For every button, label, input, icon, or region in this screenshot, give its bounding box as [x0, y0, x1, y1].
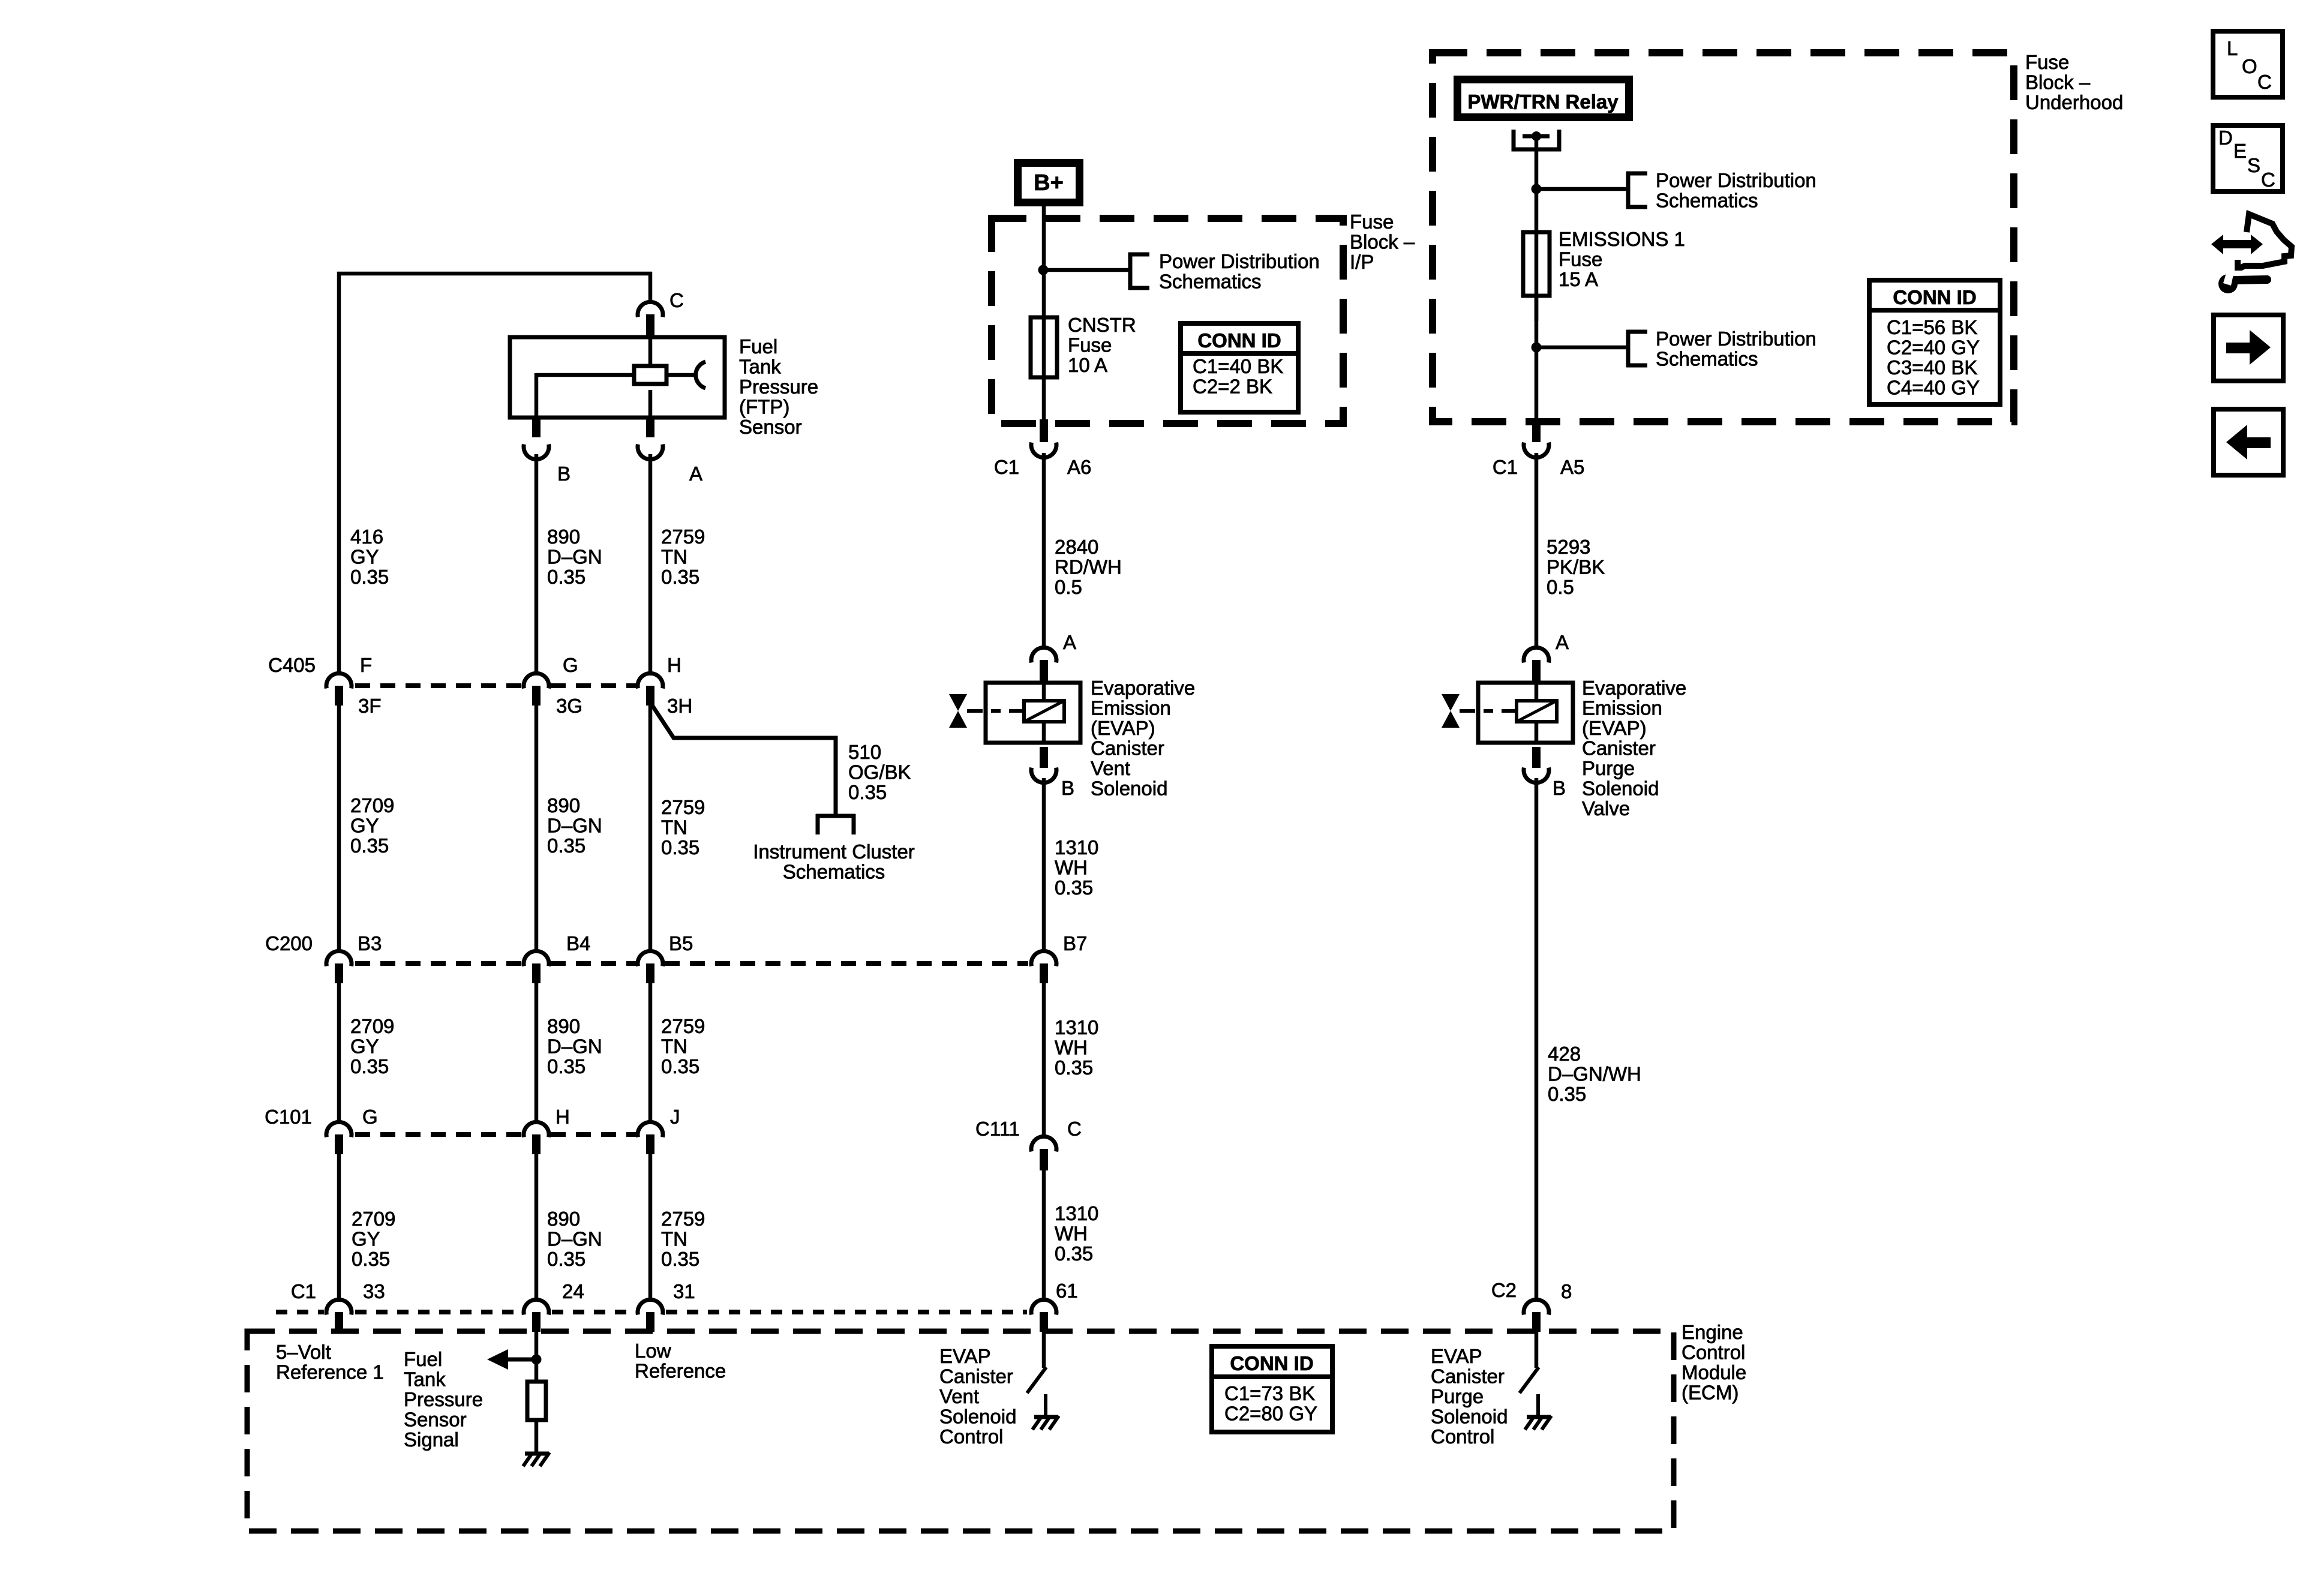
svg-text:Pressure: Pressure: [404, 1388, 483, 1410]
label C1 at A5: [1493, 456, 1518, 478]
svg-text:3F: 3F: [358, 695, 382, 717]
pin label 3G: [556, 695, 582, 717]
svg-text:E: E: [2233, 140, 2247, 162]
pin label 3H: [667, 695, 692, 717]
switch vent solenoid driver: [1027, 1367, 1046, 1393]
pin label C: [669, 289, 684, 311]
I/P CONN ID title: [1197, 329, 1281, 352]
svg-text:Canister: Canister: [939, 1365, 1013, 1388]
svg-text:Canister: Canister: [1431, 1365, 1505, 1388]
C405 male pin H: [646, 686, 654, 706]
C405 male pin G: [532, 686, 541, 706]
svg-text:Fuel: Fuel: [404, 1348, 442, 1370]
svg-text:EMISSIONS 1: EMISSIONS 1: [1559, 228, 1685, 250]
purge solenoid female arc pin B: [1524, 768, 1549, 783]
svg-text:24: 24: [562, 1280, 584, 1302]
svg-text:Fuse: Fuse: [1559, 248, 1602, 271]
pin label F: [360, 654, 372, 676]
underhood CONN ID rows: [1887, 316, 1980, 399]
svg-text:Power Distribution: Power Distribution: [1159, 250, 1320, 272]
svg-text:890: 890: [547, 1208, 580, 1230]
svg-text:2759: 2759: [661, 526, 705, 548]
pin label 33: [363, 1280, 385, 1302]
svg-text:OG/BK: OG/BK: [848, 761, 911, 784]
svg-text:0.35: 0.35: [661, 836, 699, 858]
vent solenoid female arc pin A: [1031, 647, 1056, 662]
ground chassis symbol purge driver: [1525, 1416, 1551, 1430]
svg-text:Low: Low: [635, 1340, 671, 1362]
svg-text:2709: 2709: [350, 794, 394, 816]
EVAP Canister Purge Solenoid Control label: [1431, 1345, 1508, 1448]
resistor in ECM: [527, 1382, 546, 1420]
C101 female arc pin J: [638, 1122, 663, 1137]
junction dot underhood 2: [1532, 343, 1542, 353]
purge solenoid coil wire bottom: [1535, 722, 1539, 743]
svg-text:S: S: [2247, 154, 2260, 176]
Low Reference label: [635, 1340, 726, 1382]
ECM CONN ID box: [1212, 1346, 1332, 1432]
signal arrow: [487, 1349, 536, 1370]
svg-text:2840: 2840: [1055, 536, 1098, 558]
svg-text:H: H: [556, 1106, 570, 1128]
purge solenoid valve dashes: [1460, 709, 1517, 713]
pin label A purge: [1556, 631, 1569, 653]
svg-text:B: B: [1061, 777, 1074, 799]
svg-text:33: 33: [363, 1280, 385, 1302]
svg-text:0.35: 0.35: [1548, 1083, 1586, 1105]
FTP wiper line: [666, 373, 696, 377]
svg-text:Purge: Purge: [1582, 757, 1635, 779]
svg-text:1310: 1310: [1055, 1016, 1098, 1038]
wire 1310 WH seg1: [1042, 778, 1046, 952]
male pin A6 of fuse block I/P: [1040, 419, 1048, 442]
svg-text:Canister: Canister: [1582, 737, 1656, 760]
svg-text:Solenoid: Solenoid: [1091, 778, 1167, 800]
svg-text:C1=40 BK: C1=40 BK: [1193, 355, 1283, 377]
vent solenoid coil wire bottom: [1042, 722, 1046, 743]
C101 male pin J: [646, 1134, 654, 1154]
junction dot at FTP signal: [532, 1355, 542, 1365]
svg-text:5293: 5293: [1547, 536, 1590, 558]
Power Distribution Schematics label I/P: [1159, 250, 1320, 293]
svg-text:A: A: [1556, 631, 1569, 653]
svg-text:Purge: Purge: [1431, 1385, 1484, 1407]
C200 male pin B3: [335, 963, 343, 983]
svg-text:C405: C405: [268, 654, 316, 676]
resistor R inside FTP sensor: [634, 366, 666, 384]
svg-text:Control: Control: [1682, 1341, 1745, 1364]
wire label 2709 GY 0.35 seg4: [352, 1208, 395, 1270]
svg-text:0.35: 0.35: [661, 566, 699, 588]
pin label B5: [669, 932, 693, 954]
svg-text:31: 31: [673, 1280, 695, 1302]
svg-text:Schematics: Schematics: [1656, 190, 1758, 212]
svg-text:Solenoid: Solenoid: [1582, 778, 1659, 800]
branch wire to power distribution underhood 1: [1536, 187, 1628, 191]
svg-text:0.35: 0.35: [350, 1055, 389, 1077]
Power Distribution Schematics label underhood 1: [1656, 169, 1816, 212]
C1 female arc pin 61: [1031, 1299, 1056, 1314]
svg-text:8: 8: [1561, 1280, 1572, 1302]
label C101: [265, 1106, 312, 1128]
wire resistor to ground: [535, 1420, 539, 1452]
C200 female arc pin B5: [638, 951, 663, 966]
svg-text:B: B: [1553, 777, 1566, 799]
PWR/TRN Relay box: [1458, 80, 1629, 118]
svg-text:L: L: [2227, 37, 2238, 59]
svg-text:0.35: 0.35: [848, 781, 887, 803]
branch wire to power distribution I/P: [1043, 268, 1130, 272]
svg-text:Tank: Tank: [739, 356, 781, 378]
pin label C at C111: [1067, 1118, 1082, 1140]
ground chassis symbol FTP signal: [523, 1452, 550, 1466]
FTP wiper crescent: [696, 362, 705, 388]
wire fuse to C1 A5: [1535, 296, 1539, 421]
svg-text:CONN ID: CONN ID: [1893, 286, 1976, 308]
relay output terminal bracket: [1514, 130, 1559, 149]
svg-text:C: C: [669, 289, 684, 311]
svg-text:C2=2 BK: C2=2 BK: [1193, 376, 1272, 398]
LOC icon box: [2213, 31, 2283, 97]
junction dot underhood 1: [1532, 184, 1542, 194]
svg-text:WH: WH: [1055, 857, 1088, 879]
ground chassis symbol vent driver: [1032, 1416, 1059, 1430]
svg-text:D–GN: D–GN: [547, 1228, 602, 1250]
purge solenoid coil wire top: [1535, 683, 1539, 702]
svg-text:TN: TN: [661, 816, 687, 839]
svg-text:G: G: [362, 1106, 378, 1128]
svg-text:3H: 3H: [667, 695, 692, 717]
C405 male pin F: [335, 686, 343, 706]
wire label 2759 TN 0.35 seg2: [661, 796, 705, 858]
svg-text:A5: A5: [1560, 456, 1584, 478]
svg-text:0.35: 0.35: [547, 1248, 585, 1270]
Fuse Block I/P label: [1350, 211, 1415, 273]
svg-text:Canister: Canister: [1091, 737, 1164, 760]
purge solenoid coil: [1517, 701, 1557, 722]
svg-text:D: D: [2218, 127, 2233, 149]
pin label B3: [358, 932, 382, 954]
svg-text:(EVAP): (EVAP): [1091, 717, 1155, 739]
svg-text:Module: Module: [1682, 1361, 1746, 1383]
svg-text:416: 416: [350, 526, 383, 548]
svg-text:Signal: Signal: [404, 1428, 459, 1451]
svg-text:Control: Control: [939, 1425, 1003, 1448]
svg-text:C1=73 BK: C1=73 BK: [1224, 1382, 1315, 1404]
pin label G: [362, 1106, 378, 1128]
wire label 510 OG/BK 0.35: [848, 741, 911, 803]
C405 female arc pin G: [524, 673, 549, 688]
back arrow icon box: [2214, 409, 2283, 475]
svg-text:GY: GY: [352, 1228, 380, 1250]
C200 female arc pin B4: [524, 951, 549, 966]
vent solenoid male pin B: [1040, 747, 1048, 768]
C2 male pin 8: [1532, 1312, 1541, 1332]
svg-text:O: O: [2242, 55, 2257, 77]
svg-text:890: 890: [547, 526, 580, 548]
wire 5293 PK/BK: [1535, 453, 1539, 649]
svg-text:A: A: [1063, 631, 1076, 653]
svg-text:J: J: [670, 1106, 680, 1128]
wire 890 D-GN from FTP B: [535, 454, 539, 671]
svg-text:(ECM): (ECM): [1682, 1382, 1739, 1404]
svg-text:0.35: 0.35: [547, 834, 585, 857]
svg-text:TN: TN: [661, 546, 687, 568]
pin label B4: [566, 932, 590, 954]
svg-text:Block –: Block –: [1350, 231, 1415, 253]
connector C405-area female arc at FTP pin C: [638, 302, 663, 317]
svg-text:3G: 3G: [556, 695, 582, 717]
svg-text:Pressure: Pressure: [739, 376, 818, 398]
ECM connector row dashed line: [276, 1310, 1027, 1314]
svg-text:Schematics: Schematics: [1656, 348, 1758, 370]
vent solenoid valve dashes: [967, 709, 1024, 713]
Engine Control Module (ECM) dashed box: [247, 1331, 1674, 1531]
svg-text:C101: C101: [265, 1106, 312, 1128]
wire 2709 GY seg3: [337, 982, 341, 1123]
svg-text:2709: 2709: [352, 1208, 395, 1230]
svg-text:0.35: 0.35: [1055, 1242, 1093, 1265]
svg-text:Block –: Block –: [2025, 71, 2091, 94]
vent solenoid valve bowtie: [949, 694, 967, 728]
pin label 3F: [358, 695, 382, 717]
wire label 416 GY 0.35: [350, 526, 389, 588]
EVAP canister purge solenoid box: [1478, 683, 1573, 743]
C200 male pin B4: [532, 963, 541, 983]
branch wire to power distribution underhood 2: [1536, 346, 1628, 350]
svg-text:0.35: 0.35: [350, 566, 389, 588]
pin label B: [557, 463, 571, 485]
ground lead vent driver: [1044, 1394, 1047, 1416]
svg-text:Power Distribution: Power Distribution: [1656, 169, 1816, 191]
off-page bracket to instrument cluster: [816, 814, 855, 834]
pin label A6: [1067, 456, 1091, 478]
svg-text:890: 890: [547, 1015, 580, 1037]
switch purge solenoid driver: [1520, 1367, 1539, 1393]
B+ power feed box: [1018, 163, 1080, 203]
svg-text:RD/WH: RD/WH: [1055, 556, 1122, 578]
purge solenoid valve bowtie: [1442, 694, 1460, 728]
off-page bracket power distribution I/P: [1128, 253, 1149, 290]
svg-text:D–GN: D–GN: [547, 815, 602, 837]
purge solenoid male pin B: [1532, 747, 1541, 768]
svg-text:Underhood: Underhood: [2025, 91, 2123, 113]
svg-text:Emission: Emission: [1582, 697, 1662, 719]
wire into ECM pin 8: [1535, 1331, 1539, 1368]
connector C405 dashed interconnect line: [355, 683, 636, 688]
pin label B vent: [1061, 777, 1074, 799]
wire 2759 TN seg3: [648, 982, 653, 1123]
wire label 2840 RD/WH 0.5: [1055, 536, 1122, 598]
svg-text:0.35: 0.35: [350, 834, 389, 857]
svg-text:Fuse: Fuse: [1068, 334, 1112, 356]
svg-text:C: C: [2261, 169, 2275, 191]
pin label 24: [562, 1280, 584, 1302]
svg-text:C1=56 BK: C1=56 BK: [1887, 316, 1977, 338]
svg-text:Fuse: Fuse: [1350, 211, 1394, 233]
wire B+ to fuse: [1042, 203, 1046, 320]
C405 female arc pin H: [638, 673, 663, 688]
Instrument Cluster Schematics label: [753, 840, 915, 883]
svg-text:G: G: [563, 654, 578, 676]
wire label 2759 TN 0.35 seg4: [661, 1208, 705, 1270]
C1 female arc pin 31: [638, 1299, 663, 1314]
svg-text:Fuse: Fuse: [2025, 51, 2069, 73]
svg-text:0.35: 0.35: [1055, 1056, 1093, 1079]
pin label H: [667, 654, 681, 676]
wire branch 510 OG/BK diagonal: [651, 704, 836, 816]
svg-text:1310: 1310: [1055, 836, 1098, 858]
vent solenoid female arc pin B: [1031, 768, 1056, 783]
svg-text:C1: C1: [291, 1280, 316, 1302]
pin label A vent: [1063, 631, 1076, 653]
svg-text:WH: WH: [1055, 1223, 1088, 1245]
vent solenoid male pin A: [1040, 660, 1048, 683]
svg-text:B7: B7: [1063, 932, 1087, 954]
wire 2759 TN from FTP A: [648, 454, 653, 671]
svg-text:0.35: 0.35: [547, 566, 585, 588]
wire label 5293 PK/BK 0.5: [1547, 536, 1605, 598]
ground lead purge driver: [1536, 1394, 1540, 1416]
svg-text:GY: GY: [350, 546, 379, 568]
svg-text:Valve: Valve: [1582, 797, 1630, 819]
svg-text:Vent: Vent: [939, 1385, 979, 1407]
off-page bracket power distribution underhood 2: [1626, 330, 1647, 367]
svg-text:C: C: [2257, 71, 2272, 93]
5-Volt Reference 1 label: [276, 1341, 384, 1383]
pin label J: [670, 1106, 680, 1128]
svg-text:GY: GY: [350, 815, 379, 837]
wire relay to fuse: [1535, 136, 1539, 321]
svg-text:C: C: [1067, 1118, 1082, 1140]
wire 1310 WH seg2: [1042, 982, 1046, 1136]
svg-text:D–GN: D–GN: [547, 546, 602, 568]
wire top horizontal from FTP sensor loop: [337, 272, 652, 276]
svg-text:Emission: Emission: [1091, 697, 1171, 719]
wire 1310 WH seg3: [1042, 1169, 1046, 1300]
svg-text:Evaporative: Evaporative: [1091, 677, 1195, 699]
connector C111 female arc pin C: [1031, 1136, 1056, 1151]
Fuel Tank Pressure (FTP) Sensor box: [510, 337, 725, 418]
svg-text:GY: GY: [350, 1035, 379, 1058]
pin label H: [556, 1106, 570, 1128]
svg-text:C2: C2: [1491, 1279, 1517, 1301]
svg-text:0.5: 0.5: [1055, 576, 1082, 598]
wire label 1310 WH 0.35 seg1: [1055, 836, 1098, 899]
wire 890 D-GN seg3: [535, 982, 539, 1123]
svg-text:1310: 1310: [1055, 1202, 1098, 1224]
wire label 1310 WH 0.35 seg2: [1055, 1016, 1098, 1079]
svg-text:EVAP: EVAP: [939, 1345, 991, 1367]
pin label G: [563, 654, 578, 676]
wire into ECM pin 24: [535, 1331, 539, 1380]
svg-text:F: F: [360, 654, 372, 676]
label C111: [975, 1118, 1020, 1140]
ECM CONN ID rows: [1224, 1382, 1317, 1425]
Fuel Tank Pressure Sensor Signal label: [404, 1348, 483, 1451]
junction dot fuse block I/P: [1038, 265, 1049, 275]
wire fuse to C1 A6: [1042, 317, 1046, 421]
svg-text:CNSTR: CNSTR: [1068, 314, 1136, 336]
I/P CONN ID box: [1181, 323, 1298, 412]
svg-text:Schematics: Schematics: [1159, 271, 1262, 293]
male pin B of FTP sensor: [532, 416, 541, 437]
female arc at FTP pin A: [638, 445, 663, 460]
vent solenoid coil wire top: [1042, 683, 1046, 702]
svg-text:C200: C200: [265, 932, 313, 954]
wire down to FTP pin C: [648, 272, 653, 301]
svg-text:428: 428: [1548, 1043, 1581, 1065]
female arc C1 A5: [1524, 443, 1549, 458]
connector C200 dashed interconnect line: [355, 961, 1028, 966]
wire 2759 TN seg4: [648, 1153, 653, 1300]
Fuse Block Underhood dashed box: [1433, 53, 2014, 422]
svg-text:0.35: 0.35: [661, 1248, 699, 1270]
Evaporative Emission (EVAP) Canister Purge Solenoid Valve label: [1582, 677, 1686, 819]
C200 male pin B7: [1040, 963, 1048, 983]
C200 male pin B5: [646, 963, 654, 983]
svg-text:H: H: [667, 654, 681, 676]
female arc at FTP pin B: [524, 445, 549, 460]
off-page bracket power distribution underhood 1: [1626, 172, 1647, 209]
svg-text:2759: 2759: [661, 796, 705, 818]
FTP sensor label: [739, 335, 818, 438]
svg-text:B3: B3: [358, 932, 382, 954]
svg-text:Fuel: Fuel: [739, 335, 777, 358]
label C405: [268, 654, 316, 676]
svg-text:(FTP): (FTP): [739, 396, 789, 418]
svg-text:5–Volt: 5–Volt: [276, 1341, 331, 1363]
label C1 at A6: [994, 456, 1019, 478]
male pin A of FTP sensor: [646, 390, 654, 437]
vehicle navigation icon: [2211, 214, 2292, 293]
wire label 890 D-GN 0.35 seg4: [547, 1208, 602, 1270]
label C200: [265, 932, 313, 954]
svg-text:TN: TN: [661, 1228, 687, 1250]
C101 male pin G: [335, 1134, 343, 1154]
forward arrow icon box: [2214, 315, 2283, 381]
wire label 428 D-GN/WH 0.35: [1548, 1043, 1641, 1105]
svg-text:C2=80 GY: C2=80 GY: [1224, 1403, 1317, 1425]
svg-text:EVAP: EVAP: [1431, 1345, 1482, 1367]
svg-text:Reference: Reference: [635, 1360, 726, 1382]
svg-text:Sensor: Sensor: [739, 416, 802, 438]
C1 male pin 33: [335, 1312, 343, 1332]
connector C111 male pin C: [1040, 1149, 1048, 1170]
C101 female arc pin G: [326, 1122, 352, 1137]
C405 female arc pin F: [326, 673, 352, 688]
C200 female arc pin B3: [326, 951, 352, 966]
wire 2759 TN seg2: [648, 704, 653, 952]
wire label 2759 TN 0.35 seg3: [661, 1015, 705, 1077]
CNSTR fuse symbol: [1031, 317, 1057, 377]
svg-text:Reference 1: Reference 1: [276, 1361, 384, 1383]
svg-text:2759: 2759: [661, 1208, 705, 1230]
svg-text:0.35: 0.35: [352, 1248, 390, 1270]
C1 male pin 24: [532, 1312, 541, 1332]
pin label B7: [1063, 932, 1087, 954]
svg-text:D–GN: D–GN: [547, 1035, 602, 1058]
FTP internal wire from pin C to resistor: [648, 337, 653, 367]
C1 female arc pin 33: [326, 1299, 352, 1314]
svg-text:Sensor: Sensor: [404, 1409, 467, 1431]
pin label 31: [673, 1280, 695, 1302]
purge solenoid female arc pin A: [1524, 647, 1549, 662]
vent solenoid coil: [1024, 701, 1064, 722]
svg-text:2759: 2759: [661, 1015, 705, 1037]
wire label 2709 GY 0.35 seg2: [350, 794, 394, 857]
pin label A: [689, 463, 702, 485]
